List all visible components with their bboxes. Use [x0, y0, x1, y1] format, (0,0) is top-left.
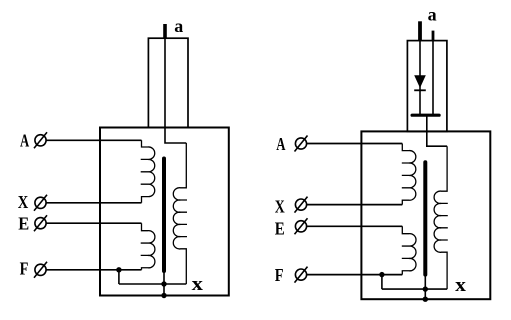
svg-text:F: F [20, 259, 29, 279]
svg-text:a: a [428, 5, 437, 25]
svg-text:F: F [275, 265, 284, 285]
svg-text:x: x [455, 275, 466, 296]
svg-text:E: E [18, 214, 29, 234]
svg-text:E: E [275, 219, 285, 239]
svg-text:a: a [174, 16, 183, 36]
svg-text:X: X [275, 197, 285, 217]
svg-text:A: A [20, 130, 29, 150]
svg-text:A: A [276, 134, 285, 154]
svg-text:X: X [18, 192, 29, 212]
svg-text:x: x [192, 274, 204, 295]
